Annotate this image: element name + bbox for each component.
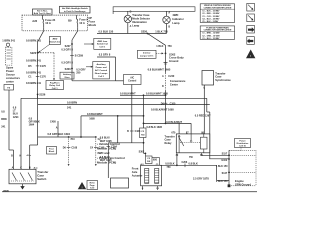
wire lamp1 down	[127, 23, 129, 34]
connector symbol battery feed	[6, 43, 9, 46]
svg-text:750: 750	[167, 166, 172, 169]
ground G302 symbol	[164, 62, 168, 64]
svg-text:C170: C170	[40, 76, 47, 79]
wire bottom horizontal	[160, 164, 217, 166]
junction P10	[68, 136, 70, 138]
svg-text:in Park Or Headlamps: in Park Or Headlamps	[64, 10, 86, 13]
svg-text:Synchronize: Synchronize	[215, 78, 231, 82]
svg-text:0.8 BRN: 0.8 BRN	[67, 100, 77, 104]
wire pin30 down	[176, 153, 178, 166]
svg-text:0.5 RED 1297: 0.5 RED 1297	[195, 114, 211, 117]
svg-text:4 Lo: 4 Lo	[27, 154, 32, 157]
svg-text:Lamp: Lamp	[132, 23, 139, 27]
symbol square diagonal arrow 1	[247, 3, 255, 11]
svg-text:Ground: Ground	[169, 59, 179, 63]
svg-text:A: A	[12, 166, 14, 169]
front axle actuator box	[141, 165, 162, 186]
svg-text:A: A	[162, 75, 164, 78]
lamp2 feed	[166, 11, 168, 16]
dashed drop PCM	[95, 138, 97, 164]
junction S147	[228, 172, 230, 174]
page bottom rule	[2, 191, 257, 193]
wire fuse B9 down grey	[77, 27, 79, 31]
I/P fuse block dashed box	[22, 15, 88, 31]
svg-text:0.3 GRY 8: 0.3 GRY 8	[61, 61, 73, 64]
warning triangle bottom	[78, 182, 86, 189]
svg-text:C3 – CLR – 32 WAY: C3 – CLR – 32 WAY	[202, 15, 220, 18]
svg-text:0.8 BRN 241: 0.8 BRN 241	[26, 81, 42, 85]
actuator coil left	[145, 169, 149, 184]
svg-text:Block: Block	[89, 23, 97, 27]
svg-text:Axle: Axle	[132, 170, 138, 174]
wire lamp2 down	[166, 24, 168, 34]
svg-text:C3 – BLU – 32 WAY: C3 – BLU – 32 WAY	[202, 37, 220, 40]
instrument cluster banner box	[113, 7, 195, 12]
connector tick C289	[70, 54, 74, 56]
svg-text:0.8 BRN 241: 0.8 BRN 241	[26, 38, 42, 42]
junction S157	[228, 154, 230, 156]
label box Hot In Run	[33, 9, 53, 15]
ground terminal	[228, 184, 231, 187]
svg-text:10 A: 10 A	[45, 21, 51, 25]
table powertrain connector identification	[200, 26, 234, 39]
svg-text:4WD Low: 4WD Low	[97, 40, 107, 43]
svg-text:S226: S226	[39, 93, 46, 97]
svg-text:CONNECTOR IDENTIFICATION: CONNECTOR IDENTIFICATION	[204, 29, 232, 32]
switch ground arrow	[22, 184, 24, 187]
svg-text:Power: Power	[6, 69, 14, 73]
svg-text:A: A	[130, 25, 132, 28]
svg-text:Cell 1: Cell 1	[98, 76, 105, 78]
symbol square right arrow	[247, 25, 255, 33]
svg-text:1 BLK 150: 1 BLK 150	[216, 165, 228, 168]
svg-text:S147: S147	[222, 172, 228, 175]
svg-text:Ashtray: Ashtray	[63, 73, 72, 76]
svg-text:Relay Coil: Relay Coil	[49, 85, 60, 87]
svg-text:0.8 BLK: 0.8 BLK	[189, 162, 199, 165]
connector C240 dashed	[165, 73, 167, 91]
wire ground drop	[165, 45, 167, 66]
wire grey to AC box	[116, 80, 124, 82]
callout box instrument lamps	[94, 38, 111, 49]
svg-text:1 BRN 241: 1 BRN 241	[2, 39, 15, 43]
svg-text:0.8 BLK/WHT 1695: 0.8 BLK/WHT 1695	[151, 108, 174, 112]
svg-text:Transfer: Transfer	[215, 71, 225, 75]
svg-text:C: C	[20, 166, 22, 169]
svg-text:4WD: 4WD	[3, 189, 9, 193]
arrow interior lamps	[156, 52, 162, 54]
dashed branch from S220	[38, 52, 54, 54]
symbol square left arrow	[247, 37, 255, 45]
transfer case switch box	[9, 169, 36, 184]
svg-text:B: B	[130, 11, 132, 14]
svg-text:C4 – BLU – 24 WAY: C4 – BLU – 24 WAY	[202, 17, 220, 20]
svg-text:241: 241	[1, 126, 6, 129]
svg-text:Auxiliary: Auxiliary	[96, 63, 106, 66]
svg-text:Lamps Cell 1: Lamps Cell 1	[140, 55, 154, 57]
svg-text:BRN: BRN	[1, 118, 7, 121]
junction G102	[228, 158, 230, 160]
svg-text:C206: C206	[182, 161, 188, 164]
wire 108 drop	[107, 143, 109, 178]
svg-text:2.5 GRY 1878: 2.5 GRY 1878	[193, 177, 209, 180]
svg-text:250: 250	[76, 72, 81, 75]
svg-text:Switch Ind: Switch Ind	[49, 40, 61, 43]
svg-text:WHT 1695: WHT 1695	[100, 159, 113, 162]
svg-text:DK: DK	[147, 161, 151, 163]
svg-text:B9: B9	[68, 19, 72, 23]
svg-text:S250: S250	[141, 30, 148, 34]
svg-text:750: 750	[168, 45, 173, 48]
wire trunk to switch	[37, 94, 39, 145]
svg-text:C240: C240	[168, 75, 175, 78]
svg-text:Case: Case	[215, 75, 222, 79]
svg-text:Control: Control	[128, 79, 137, 82]
svg-text:Spare: Spare	[6, 66, 14, 70]
wire left feed down	[8, 90, 10, 150]
svg-text:S207: S207	[65, 45, 71, 48]
dashed link power dist	[240, 148, 242, 151]
svg-text:Mode Selector: Mode Selector	[132, 16, 150, 20]
wire 1695 horizontal	[120, 94, 166, 96]
svg-text:C100: C100	[170, 102, 176, 105]
callout box interior lamps	[138, 50, 157, 58]
wire 1695 low horizontal	[108, 142, 143, 144]
svg-text:Relay: Relay	[165, 141, 172, 145]
callout box ashtray	[60, 72, 74, 79]
svg-text:0.8 BLK: 0.8 BLK	[165, 162, 175, 165]
wire grey branch right	[71, 69, 73, 81]
fuse B9	[76, 15, 78, 19]
svg-text:1 BLK: 1 BLK	[156, 45, 163, 48]
connector C168 a	[67, 147, 71, 149]
wire 1695 branch left	[81, 115, 144, 117]
switch internals	[12, 173, 17, 181]
svg-text:C1 – BRN – 12 WAY: C1 – BRN – 12 WAY	[202, 32, 220, 35]
small box C3	[140, 128, 147, 138]
wire 1694 horizontal	[38, 136, 96, 138]
svg-text:B: B	[168, 25, 170, 28]
dashed drop VCM	[68, 138, 70, 164]
junction 1695 a	[143, 94, 145, 96]
connector tick C264	[107, 146, 111, 148]
arrow into aux lamps	[86, 66, 92, 68]
svg-text:Bulb Test Or Start: Bulb Test Or Start	[34, 12, 51, 15]
wire pin85 link	[201, 153, 203, 156]
wire actuator feeds	[142, 164, 144, 166]
svg-text:Distribution: Distribution	[237, 142, 249, 145]
svg-text:0.5 BLK 150: 0.5 BLK 150	[99, 30, 114, 34]
wire 209 link	[209, 158, 229, 160]
actuator coil right	[155, 169, 159, 184]
svg-text:4WD and: 4WD and	[97, 151, 110, 155]
wire second horizontal 241	[38, 104, 210, 106]
wire lamp ground bus	[97, 33, 167, 35]
svg-text:center: center	[6, 79, 14, 83]
wire S302	[143, 138, 145, 154]
svg-text:C168: C168	[71, 147, 77, 150]
svg-text:A/C: A/C	[130, 76, 134, 79]
svg-text:Transfer Case: Transfer Case	[132, 13, 150, 17]
wire fuse A22 to S220	[43, 27, 45, 31]
svg-text:WHT 1695: WHT 1695	[100, 140, 113, 143]
svg-text:B: B	[127, 130, 129, 133]
connector tick C170 b	[36, 75, 40, 77]
wire AC control down	[131, 85, 133, 143]
svg-text:A: A	[168, 11, 170, 14]
wire 1695 lower	[165, 90, 167, 123]
connector C168 b	[94, 147, 98, 149]
wire relay top link	[144, 122, 192, 124]
svg-text:Cell 1: Cell 1	[52, 88, 59, 90]
arrow into instrument lamps	[84, 43, 93, 45]
svg-text:0.3 GRY 8: 0.3 GRY 8	[99, 54, 111, 57]
junction S250	[147, 33, 149, 35]
svg-text:C1 – BLK – 32 WAY: C1 – BLK – 32 WAY	[202, 10, 220, 13]
wire sync down	[203, 85, 205, 134]
wire banner drop left	[112, 11, 114, 14]
svg-text:A: A	[56, 126, 58, 129]
svg-text:CONNECTOR IDENTIFICATION: CONNECTOR IDENTIFICATION	[204, 6, 232, 9]
svg-text:Indicator: Indicator	[172, 17, 183, 21]
svg-text:Power and: Power and	[96, 67, 108, 69]
power distribution box	[235, 139, 251, 148]
connector tick C100	[164, 102, 168, 104]
svg-text:Cell 1: Cell 1	[99, 47, 106, 49]
svg-text:S303: S303	[65, 68, 71, 71]
actuator bottom wires	[142, 186, 144, 190]
wire 1695 upper	[165, 67, 167, 73]
svg-text:GRN Ground: GRN Ground	[235, 182, 251, 186]
svg-text:B C289: B C289	[75, 55, 84, 58]
svg-text:1694: 1694	[29, 124, 35, 127]
svg-text:Cross-Body: Cross-Body	[169, 56, 184, 60]
empty note box	[111, 178, 129, 188]
transfer case relay box	[176, 134, 210, 153]
svg-text:C2 – RED – 32 WAY: C2 – RED – 32 WAY	[202, 12, 220, 15]
svg-text:!: !	[82, 185, 83, 189]
svg-text:C2 – GRN – 16 WAY: C2 – GRN – 16 WAY	[202, 34, 220, 37]
wire ground net vertical	[228, 150, 230, 186]
junction P11	[95, 136, 97, 138]
connector tick C170 a	[36, 65, 40, 67]
svg-text:C5 – BLK – 5 WAY: C5 – BLK – 5 WAY	[202, 20, 219, 23]
transfer case synchronizer box	[202, 71, 214, 86]
wire main to relay	[206, 98, 208, 112]
svg-text:650: 650	[153, 159, 158, 162]
relay internals	[178, 135, 180, 153]
callout box near switch	[47, 147, 57, 155]
fuse A22	[42, 15, 44, 19]
wire main horizontal 241	[21, 97, 207, 99]
svg-text:Actuator: Actuator	[132, 173, 143, 177]
svg-text:10 A: 10 A	[79, 21, 85, 25]
svg-text:Lamp: Lamp	[172, 21, 180, 25]
svg-text:1 BLK 750: 1 BLK 750	[155, 30, 168, 34]
svg-text:241: 241	[67, 105, 72, 109]
lamp transfer case mode selector	[124, 15, 131, 22]
svg-text:Engine: Engine	[235, 179, 244, 183]
connector tick C426	[130, 130, 134, 132]
svg-text:A/C Control: A/C Control	[95, 69, 108, 72]
dashed stubs ground net	[229, 149, 256, 151]
svg-text:0.3 GRY 8: 0.3 GRY 8	[61, 49, 73, 52]
junction ground	[165, 53, 167, 55]
wire 1878	[216, 165, 218, 180]
svg-text:0.8 GRY/BLK 1694: 0.8 GRY/BLK 1694	[48, 132, 71, 136]
svg-text:C264: C264	[111, 146, 117, 149]
svg-text:C458: C458	[50, 121, 56, 124]
svg-text:1294: 1294	[13, 116, 19, 119]
svg-text:0.8 BLK/WHT 1695: 0.8 BLK/WHT 1695	[148, 68, 171, 72]
svg-text:Illumination: Illumination	[132, 20, 147, 24]
symbol warning triangle	[246, 50, 255, 59]
svg-text:G102: G102	[221, 159, 228, 162]
svg-text:!: !	[250, 54, 251, 58]
arrow callout to S220	[39, 45, 49, 52]
small box C3 left	[146, 156, 153, 164]
svg-text:Switch: Switch	[37, 177, 46, 181]
junction S226	[37, 94, 39, 96]
svg-text:1695: 1695	[89, 118, 95, 121]
lamp 4WD indicator	[163, 16, 170, 23]
symbol square diagonal arrow 2	[247, 14, 255, 22]
svg-text:Transfer: Transfer	[165, 134, 175, 138]
svg-text:P10: P10	[71, 139, 76, 141]
svg-text:4WD: 4WD	[52, 38, 57, 41]
svg-text:A22: A22	[32, 19, 37, 23]
svg-text:Center: Center	[170, 83, 178, 86]
svg-text:Block: Block	[49, 151, 55, 153]
svg-text:0.8: 0.8	[1, 111, 5, 114]
wire grey down 1	[71, 44, 73, 69]
svg-text:0.8 BLK 1695: 0.8 BLK 1695	[147, 126, 163, 129]
svg-text:Fog/Horn: Fog/Horn	[50, 82, 60, 84]
wire 1695 drop to relay coil	[143, 95, 145, 128]
note box bottom	[87, 181, 98, 190]
wire trunk BRN 241	[37, 53, 39, 99]
junction S220	[37, 52, 39, 54]
wire switch pin A stub	[13, 150, 15, 169]
junction S303	[71, 68, 73, 70]
junction 1695 b	[165, 94, 167, 96]
svg-text:0.8 BRN 241: 0.8 BRN 241	[26, 59, 42, 63]
wire S250 diagonal	[148, 34, 166, 46]
svg-text:Illum: Illum	[65, 77, 70, 79]
callout box cruise	[49, 37, 60, 45]
svg-text:0.8 BLK/WHT: 0.8 BLK/WHT	[87, 113, 103, 116]
svg-text:S220: S220	[30, 51, 37, 55]
svg-text:Illum Lamps: Illum Lamps	[95, 73, 109, 75]
svg-text:C426: C426	[135, 130, 141, 133]
callout box aux lamps	[93, 62, 110, 79]
svg-text:connectors: connectors	[6, 76, 21, 80]
svg-text:Refer: Refer	[90, 182, 95, 184]
label box Hot With Parking Lamps	[60, 6, 91, 13]
svg-text:Front: Front	[132, 167, 139, 171]
svg-text:Switch Ind: Switch Ind	[97, 43, 109, 46]
table VCM connector identification	[200, 4, 234, 23]
wire 1694 up stub	[57, 121, 59, 137]
lamp1 feed	[127, 11, 129, 15]
svg-text:4WD: 4WD	[172, 13, 178, 17]
connector tick C206	[184, 164, 186, 168]
svg-text:B: B	[29, 166, 31, 169]
svg-text:Power: Power	[239, 139, 245, 142]
svg-text:0.8 BRN 241: 0.8 BRN 241	[26, 70, 42, 74]
junction S207	[71, 43, 73, 45]
svg-text:Source: Source	[6, 73, 15, 77]
svg-text:D: D	[162, 85, 164, 88]
callout box AC control	[124, 75, 142, 85]
callout box relay coil	[46, 81, 64, 90]
small box left feed	[4, 85, 14, 91]
svg-text:G302: G302	[169, 52, 176, 56]
svg-text:Cell 10: Cell 10	[239, 146, 247, 148]
svg-text:C170: C170	[40, 65, 47, 68]
svg-text:Interior: Interior	[143, 51, 151, 54]
svg-text:Case: Case	[165, 138, 172, 142]
svg-text:670: 670	[171, 131, 176, 134]
svg-text:Hot With Headlight Switch: Hot With Headlight Switch	[62, 7, 89, 10]
junction S302	[145, 153, 147, 155]
